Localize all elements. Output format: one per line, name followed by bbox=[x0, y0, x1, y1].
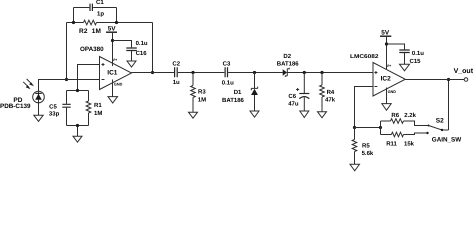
junction output node bbox=[447, 78, 450, 81]
svg-text:R3: R3 bbox=[198, 88, 206, 95]
switch S2 pole dot bbox=[441, 129, 443, 131]
svg-text:1M: 1M bbox=[94, 110, 102, 117]
junction + input to box bbox=[76, 89, 79, 92]
wire D2 to IC2 + input bbox=[287, 72, 373, 74]
wire V+ to C15 bbox=[387, 44, 405, 50]
svg-text:R4: R4 bbox=[327, 89, 335, 96]
junction gain box left bbox=[379, 126, 382, 129]
resistor R3 bbox=[191, 73, 196, 113]
photodiode PD circle bbox=[33, 91, 45, 103]
capacitor C3 bbox=[225, 67, 227, 77]
IC2 minus input glyph bbox=[374, 86, 377, 88]
svg-text:D2: D2 bbox=[283, 53, 291, 60]
wire photodiode to ground bbox=[38, 103, 40, 115]
wire IC2 output bbox=[405, 79, 464, 81]
wire 5V to IC1 V+ pin bbox=[112, 32, 114, 66]
IC1 plus input glyph bbox=[102, 63, 105, 66]
svg-text:IC1: IC1 bbox=[107, 69, 118, 76]
ground (C16) bbox=[127, 61, 136, 67]
wire feedback top branch (C1 row) bbox=[74, 8, 117, 23]
diode D1 BAT186 bbox=[251, 73, 258, 112]
svg-text:C6: C6 bbox=[288, 93, 296, 100]
diode D2 BAT186 bbox=[283, 68, 290, 77]
junction D1 node bbox=[253, 71, 256, 74]
junction feedback to output node bbox=[151, 71, 154, 74]
ground (bias box) bbox=[73, 136, 82, 142]
svg-text:0.1u: 0.1u bbox=[136, 40, 148, 47]
ground (R5) bbox=[350, 164, 360, 171]
wire C3 to D2 bbox=[228, 72, 283, 74]
photodiode light arrow 2 bbox=[27, 79, 34, 86]
svg-text:1p: 1p bbox=[97, 10, 104, 17]
junction V+ branch (IC2) bbox=[385, 42, 388, 45]
terminal V_out bbox=[464, 78, 468, 82]
wire input node (photodiode to IC1 inverting input) bbox=[39, 80, 100, 92]
svg-text:5.6k: 5.6k bbox=[362, 150, 374, 157]
junction C6 node bbox=[303, 71, 306, 74]
svg-text:R11: R11 bbox=[386, 141, 397, 148]
junction feedback to input node bbox=[65, 78, 68, 81]
svg-text:33p: 33p bbox=[49, 110, 60, 117]
junction R4 node bbox=[320, 71, 323, 74]
supply 5V (IC1) bbox=[106, 25, 117, 32]
svg-text:2.2k: 2.2k bbox=[404, 112, 416, 119]
capacitor C16 bbox=[126, 48, 137, 51]
svg-text:5V: 5V bbox=[108, 25, 117, 32]
junction R3 node bbox=[191, 71, 194, 74]
capacitor C15 bbox=[399, 50, 409, 53]
supply 5V (IC2) bbox=[380, 29, 391, 36]
svg-text:GAIN_SW: GAIN_SW bbox=[432, 137, 461, 144]
switch S2 contact throw1 bbox=[428, 125, 430, 127]
op-amp IC1 bbox=[100, 57, 132, 90]
svg-text:R6: R6 bbox=[391, 112, 399, 119]
resistor R1 bbox=[86, 91, 91, 126]
ground (C6) bbox=[300, 111, 309, 118]
svg-text:OPA380: OPA380 bbox=[80, 46, 104, 53]
wire IC2 GND pin bbox=[386, 88, 388, 104]
wire gain box left vertical bbox=[380, 121, 382, 135]
resistor R5 bbox=[352, 128, 357, 165]
svg-text:IC2: IC2 bbox=[381, 76, 392, 83]
capacitor C2 bbox=[175, 67, 178, 77]
resistor R2 bbox=[84, 20, 97, 25]
ground (R4) bbox=[318, 112, 327, 118]
svg-text:0.1u: 0.1u bbox=[412, 50, 424, 57]
svg-text:V_out: V_out bbox=[454, 68, 474, 75]
svg-text:C1: C1 bbox=[96, 0, 104, 6]
svg-text:47u: 47u bbox=[288, 100, 299, 107]
wire IC1 GND pin bbox=[112, 80, 114, 97]
resistor R6 bbox=[391, 119, 404, 124]
ground (D1) bbox=[250, 111, 259, 117]
svg-text:R5: R5 bbox=[362, 142, 370, 149]
ground (photodiode) bbox=[34, 115, 43, 121]
junction V+ branch bbox=[111, 39, 114, 42]
svg-text:C15: C15 bbox=[410, 58, 422, 65]
svg-text:47k: 47k bbox=[325, 96, 336, 103]
svg-text:15k: 15k bbox=[404, 141, 415, 148]
photodiode light arrow 1 bbox=[23, 82, 30, 89]
wire gain box bottom branch bbox=[381, 133, 428, 135]
svg-text:PDB-C139: PDB-C139 bbox=[0, 103, 31, 110]
ground (IC2) bbox=[382, 104, 391, 111]
wire C16 to ground bbox=[131, 51, 133, 61]
wire feedback mid row (R2 row) bbox=[67, 22, 153, 24]
svg-text:GND: GND bbox=[388, 90, 397, 94]
wire 5V to IC2 V+ pin bbox=[386, 36, 388, 69]
svg-text:LMC6082: LMC6082 bbox=[350, 54, 379, 60]
wire V+ to C16 bbox=[113, 41, 132, 48]
switch S2 contact throw2 bbox=[426, 132, 428, 134]
svg-text:C5: C5 bbox=[49, 104, 57, 111]
capacitor C1 bbox=[90, 4, 92, 11]
wire IC1 output bbox=[132, 72, 175, 74]
svg-text:R1: R1 bbox=[94, 102, 102, 109]
ground (C15) bbox=[400, 64, 410, 71]
capacitor C6 polarized bbox=[296, 73, 309, 112]
wire IC2 inverting input to feedback bbox=[355, 87, 374, 128]
junction R5 node bbox=[353, 126, 356, 129]
wire feedback right vertical bbox=[152, 23, 154, 73]
wire bias box bottom bbox=[67, 126, 89, 137]
wire IC1 + input bbox=[78, 65, 100, 91]
resistor R11 bbox=[391, 132, 403, 137]
svg-text:R2 1M: R2 1M bbox=[79, 28, 101, 35]
wire bias box top bbox=[67, 90, 89, 92]
ground (IC1) bbox=[108, 97, 118, 103]
wire gain box top branch bbox=[381, 121, 429, 126]
wire feedback bottom bbox=[355, 127, 381, 129]
wire feedback left vertical bbox=[66, 23, 68, 80]
svg-text:V+: V+ bbox=[387, 64, 393, 68]
junction C1 left bbox=[72, 21, 75, 24]
IC2 plus input glyph bbox=[374, 71, 377, 74]
wire C15 to ground bbox=[404, 53, 406, 64]
junction box bottom bbox=[76, 124, 79, 127]
svg-text:5V: 5V bbox=[381, 29, 390, 36]
svg-text:GND: GND bbox=[114, 83, 123, 87]
wire output to switch bbox=[448, 80, 450, 131]
svg-text:V+: V+ bbox=[113, 58, 119, 62]
svg-text:BAT186: BAT186 bbox=[222, 97, 245, 104]
svg-text:1M: 1M bbox=[198, 96, 206, 103]
ground (R3) bbox=[189, 112, 198, 118]
junction C1 right bbox=[115, 21, 118, 24]
svg-text:C3: C3 bbox=[223, 60, 231, 67]
svg-text:1u: 1u bbox=[173, 79, 180, 86]
svg-text:S2: S2 bbox=[436, 118, 444, 125]
resistor R4 bbox=[320, 73, 325, 112]
switch S2 lever bbox=[429, 126, 449, 131]
capacitor C5 bbox=[62, 91, 70, 126]
svg-text:0.1u: 0.1u bbox=[222, 79, 234, 86]
op-amp IC2 bbox=[373, 63, 405, 97]
svg-text:C16: C16 bbox=[136, 50, 148, 57]
svg-text:D1: D1 bbox=[234, 89, 242, 96]
svg-text:C2: C2 bbox=[172, 60, 180, 67]
svg-text:BAT186: BAT186 bbox=[277, 60, 300, 67]
photodiode PD diode symbol bbox=[35, 91, 42, 103]
IC1 minus input glyph bbox=[102, 79, 105, 81]
wire C2 to C3 bbox=[178, 72, 225, 74]
